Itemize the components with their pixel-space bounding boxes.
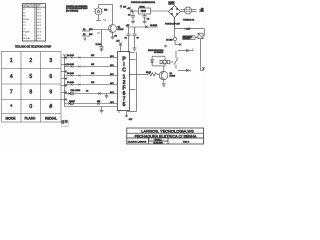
svg-text:D2 4148: D2 4148 bbox=[67, 64, 74, 66]
svg-text:3: 3 bbox=[49, 58, 52, 64]
svg-text:GP1: GP1 bbox=[110, 65, 114, 67]
svg-text:G5 6: G5 6 bbox=[37, 25, 41, 27]
svg-text:7805: 7805 bbox=[141, 10, 147, 13]
svg-text:9: 9 bbox=[49, 90, 52, 96]
svg-text:G0 1: G0 1 bbox=[37, 9, 41, 11]
svg-text:C3: C3 bbox=[128, 15, 130, 17]
svg-text:8: 8 bbox=[29, 90, 32, 96]
svg-text:R2: R2 bbox=[83, 34, 85, 36]
svg-text:*: * bbox=[10, 104, 12, 110]
svg-text:C2: C2 bbox=[23, 28, 25, 30]
svg-text:D6 LED: D6 LED bbox=[166, 39, 173, 41]
svg-text:2: 2 bbox=[29, 58, 32, 64]
svg-text:F3: F3 bbox=[23, 16, 25, 18]
svg-text:OUT: OUT bbox=[129, 119, 132, 121]
svg-text:PONTE CAP 10V: PONTE CAP 10V bbox=[165, 23, 181, 26]
svg-text:BC548: BC548 bbox=[170, 75, 176, 77]
svg-text:FLASH: FLASH bbox=[25, 116, 36, 120]
svg-text:G3 0: G3 0 bbox=[37, 38, 41, 40]
svg-text:F4: F4 bbox=[23, 22, 25, 24]
svg-text:TECLADO TEL: TECLADO TEL bbox=[23, 5, 35, 8]
svg-text:RET 1A: RET 1A bbox=[169, 3, 176, 6]
svg-text:110: 110 bbox=[201, 9, 204, 11]
svg-text:TECLADO DE TELEFONO DTMF: TECLADO DE TELEFONO DTMF bbox=[15, 46, 52, 49]
svg-text:R1: R1 bbox=[83, 29, 85, 31]
svg-text:C5 100N: C5 100N bbox=[150, 25, 158, 27]
svg-text:10K: 10K bbox=[89, 34, 93, 36]
svg-text:MODE: MODE bbox=[6, 116, 17, 120]
svg-text:C3: C3 bbox=[23, 35, 25, 37]
svg-text:C9: C9 bbox=[86, 90, 88, 92]
svg-text:BC548: BC548 bbox=[118, 29, 124, 31]
svg-text:5: 5 bbox=[123, 102, 126, 108]
svg-text:REDIAL: REDIAL bbox=[45, 116, 57, 120]
svg-text:4: 4 bbox=[10, 74, 13, 80]
svg-text:FLASH: FLASH bbox=[23, 31, 30, 34]
svg-text:TOMADA CA: TOMADA CA bbox=[183, 19, 195, 22]
svg-text:C1: C1 bbox=[23, 25, 25, 27]
svg-text:MODE: MODE bbox=[23, 19, 29, 21]
svg-text:G2 3: G2 3 bbox=[37, 16, 41, 18]
svg-text:D3 4148: D3 4148 bbox=[67, 73, 74, 75]
svg-text:GP5: GP5 bbox=[110, 102, 114, 104]
svg-text:R5 1K: R5 1K bbox=[146, 72, 152, 74]
svg-text:20-08-2012: 20-08-2012 bbox=[153, 143, 162, 145]
svg-text:ESCALA: ESCALA bbox=[154, 139, 162, 142]
svg-text:C4: C4 bbox=[147, 19, 149, 21]
svg-text:10K: 10K bbox=[91, 55, 95, 57]
svg-text:GP3: GP3 bbox=[110, 83, 114, 85]
svg-text:R3: R3 bbox=[115, 36, 117, 38]
svg-text:XTAL 4MHZ: XTAL 4MHZ bbox=[71, 89, 82, 92]
svg-text:F2: F2 bbox=[23, 12, 25, 14]
svg-text:G1 2: G1 2 bbox=[37, 12, 41, 14]
svg-text:F1: F1 bbox=[23, 9, 25, 11]
svg-text:CLAUDIO LARGOS: CLAUDIO LARGOS bbox=[128, 140, 147, 143]
svg-text:RESET: RESET bbox=[69, 101, 76, 103]
svg-text:FONTE DE ALIMENTACION: FONTE DE ALIMENTACION bbox=[131, 1, 156, 4]
svg-text:REG1: REG1 bbox=[140, 6, 145, 8]
svg-text:FECHADURA ELETRICA C/ SENHA: FECHADURA ELETRICA C/ SENHA bbox=[135, 134, 197, 138]
svg-text:7: 7 bbox=[10, 90, 13, 96]
svg-text:LARGOS. TECNOLOGIA.WS: LARGOS. TECNOLOGIA.WS bbox=[141, 129, 194, 134]
svg-text:0: 0 bbox=[29, 104, 32, 110]
svg-text:1: 1 bbox=[10, 58, 13, 64]
svg-text:C2 104: C2 104 bbox=[96, 44, 102, 46]
svg-text:G1 8: G1 8 bbox=[37, 32, 41, 34]
svg-text:GP2: GP2 bbox=[110, 74, 114, 76]
svg-text:BZ1: BZ1 bbox=[104, 9, 107, 11]
svg-text:6: 6 bbox=[49, 74, 52, 80]
svg-text:REDIAL: REDIAL bbox=[23, 37, 30, 40]
svg-text:10K: 10K bbox=[91, 82, 95, 84]
svg-text:#: # bbox=[49, 104, 52, 110]
svg-text:D5 1N4148: D5 1N4148 bbox=[154, 52, 163, 54]
svg-text:GP0: GP0 bbox=[110, 56, 114, 58]
svg-text:G2 9: G2 9 bbox=[37, 35, 41, 37]
svg-text:D1 4148: D1 4148 bbox=[67, 55, 74, 57]
svg-text:(NO ORIGINAL): (NO ORIGINAL) bbox=[66, 10, 79, 13]
svg-text:10K: 10K bbox=[91, 73, 95, 75]
svg-text:G4 5: G4 5 bbox=[37, 22, 41, 24]
svg-text:PAG 1: PAG 1 bbox=[183, 140, 190, 143]
svg-text:10K: 10K bbox=[97, 101, 101, 103]
svg-text:10K: 10K bbox=[91, 64, 95, 66]
svg-text:C7: C7 bbox=[137, 38, 139, 40]
svg-text:G0 7: G0 7 bbox=[37, 28, 41, 30]
svg-text:C: C bbox=[122, 68, 126, 74]
svg-text:C6: C6 bbox=[125, 38, 127, 40]
svg-text:+5V: +5V bbox=[126, 25, 130, 27]
svg-text:5: 5 bbox=[29, 74, 32, 80]
svg-text:+5V: +5V bbox=[116, 41, 120, 43]
svg-text:D4 4148: D4 4148 bbox=[67, 82, 74, 84]
svg-text:GP4: GP4 bbox=[110, 92, 114, 94]
svg-text:G3 4: G3 4 bbox=[37, 19, 41, 21]
